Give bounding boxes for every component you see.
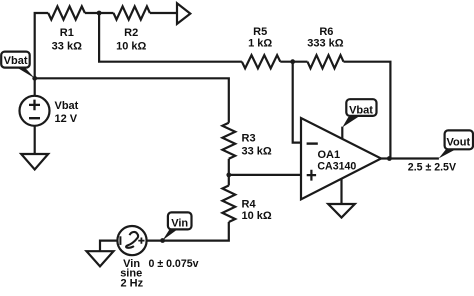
svg-text:1 kΩ: 1 kΩ	[248, 37, 272, 49]
svg-text:10 kΩ: 10 kΩ	[116, 41, 146, 53]
svg-text:R2: R2	[124, 27, 138, 39]
svg-text:33 kΩ: 33 kΩ	[242, 146, 272, 158]
svg-text:R6: R6	[319, 26, 333, 38]
svg-text:0 ± 0.075v: 0 ± 0.075v	[149, 258, 199, 270]
svg-text:333 kΩ: 333 kΩ	[307, 37, 344, 49]
svg-text:10 kΩ: 10 kΩ	[242, 210, 272, 222]
svg-text:Vbat: Vbat	[349, 105, 373, 117]
svg-text:2.5 ± 2.5V: 2.5 ± 2.5V	[408, 161, 456, 173]
svg-text:R1: R1	[60, 27, 74, 39]
svg-text:Vbat: Vbat	[55, 100, 79, 112]
svg-text:12 V: 12 V	[55, 113, 78, 125]
svg-text:CA3140: CA3140	[317, 160, 356, 172]
svg-text:2 Hz: 2 Hz	[120, 278, 143, 290]
svg-text:R4: R4	[242, 198, 257, 210]
svg-text:Vin: Vin	[171, 218, 188, 230]
svg-text:R5: R5	[253, 26, 267, 38]
svg-text:R3: R3	[242, 133, 256, 145]
svg-text:Vout: Vout	[446, 137, 470, 149]
svg-text:Vbat: Vbat	[4, 55, 28, 67]
svg-text:33 kΩ: 33 kΩ	[52, 41, 82, 53]
svg-text:OA1: OA1	[318, 149, 341, 161]
